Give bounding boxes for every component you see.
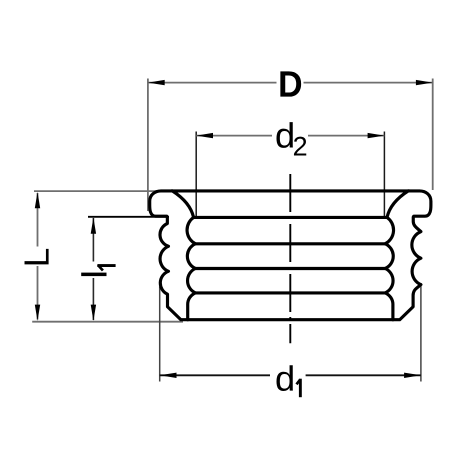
label L rotated — [25, 249, 49, 264]
arrow d2 right — [368, 133, 385, 138]
label d1 subscript 1 stem — [299, 379, 302, 398]
label d1 — [276, 365, 292, 391]
thread line 3 — [195, 242, 385, 245]
arrow l1 bottom — [91, 305, 96, 321]
thread line 5 — [195, 291, 385, 294]
label d1 subscript 1 flag — [297, 380, 301, 385]
extension line d2 left — [195, 132, 197, 217]
dimension line d2 — [196, 135, 272, 137]
label l1 rotated l bar — [81, 273, 106, 277]
arrow d1 right — [404, 373, 421, 378]
dimension line d1 — [160, 374, 270, 376]
extension line l1 top — [88, 216, 169, 218]
dimension line l1 — [92, 218, 94, 262]
arrow D right — [416, 80, 433, 85]
arrow d2 left — [196, 133, 213, 138]
arrow l1 top — [91, 217, 96, 233]
extension line L l1 bottom — [32, 321, 183, 323]
arrow D left — [148, 80, 165, 85]
label l1 rotated subscript 1 stem — [97, 264, 115, 267]
dimension line L — [37, 193, 39, 247]
label l1 rotated subscript 1 flag — [98, 265, 103, 271]
thread line 2 flange underside — [194, 216, 387, 219]
arrow L bottom — [35, 305, 40, 321]
extension line L top — [34, 190, 181, 192]
arrow L top — [35, 192, 40, 208]
extension line D left — [147, 79, 149, 212]
thread line 4 — [195, 267, 385, 270]
dimension line D — [148, 82, 277, 84]
part outer contour — [150, 191, 431, 320]
extension line d1 right — [420, 286, 422, 382]
bump left inner curve and left thread bore wall — [173, 191, 196, 320]
label d2 — [276, 122, 292, 148]
extension line D right — [432, 79, 434, 191]
flange top line — [171, 189, 410, 192]
bump right inner curve and right thread bore wall — [385, 191, 408, 320]
label D — [280, 71, 301, 96]
extension line d1 left — [159, 287, 161, 382]
extension line d2 right — [383, 132, 385, 217]
arrow d1 left — [160, 373, 177, 378]
center line — [289, 174, 291, 343]
